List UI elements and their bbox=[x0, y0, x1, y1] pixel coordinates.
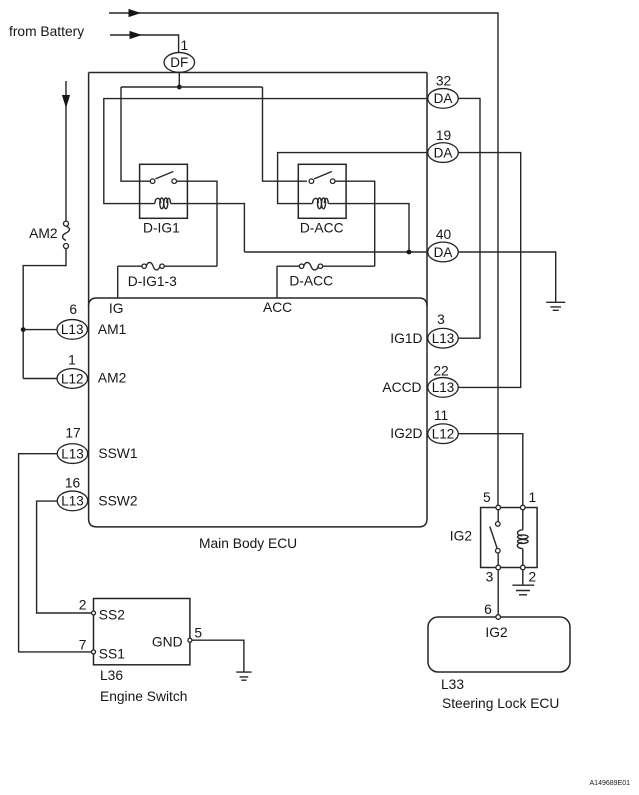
wire to AM1 connector bbox=[23, 329, 57, 331]
svg-text:2: 2 bbox=[79, 598, 87, 613]
wire IG2 pin 3 to steering lock ECU pin 6 bbox=[497, 570, 499, 615]
wire fuse D-IG1-3 to IG pin bbox=[117, 266, 119, 298]
pin GND contact bbox=[188, 638, 192, 642]
relay D-ACC switch blade bbox=[314, 172, 332, 179]
svg-text:6: 6 bbox=[484, 602, 492, 617]
connector DA 19 bbox=[428, 143, 459, 163]
node junction on DA40 line bbox=[407, 250, 412, 255]
svg-text:5: 5 bbox=[194, 626, 202, 641]
svg-text:DA: DA bbox=[434, 245, 453, 260]
Engine Switch box bbox=[94, 599, 190, 665]
svg-text:AM2: AM2 bbox=[98, 371, 126, 386]
wire D-IG1 coil out to DA40 line bbox=[171, 204, 245, 252]
relay D-IG1 box bbox=[140, 164, 188, 218]
svg-text:L12: L12 bbox=[61, 371, 84, 386]
svg-text:L13: L13 bbox=[432, 331, 455, 346]
connector L13 AM1 bbox=[57, 320, 88, 340]
svg-text:L33: L33 bbox=[441, 677, 464, 692]
fuse D-ACC bbox=[277, 265, 300, 267]
svg-text:3: 3 bbox=[437, 312, 445, 327]
svg-text:32: 32 bbox=[436, 73, 451, 88]
relay IG2 pin contacts bbox=[496, 505, 501, 510]
svg-text:1: 1 bbox=[528, 490, 536, 505]
ground of DA40 bbox=[546, 302, 565, 310]
svg-text:16: 16 bbox=[65, 475, 81, 490]
svg-text:L13: L13 bbox=[61, 446, 84, 461]
connector DF bbox=[164, 53, 195, 73]
wire DA40 line bbox=[244, 251, 428, 253]
connector DA 40 bbox=[428, 242, 459, 262]
svg-text:7: 7 bbox=[79, 637, 87, 652]
svg-text:GND: GND bbox=[152, 634, 183, 649]
arrow on AM2 feed bbox=[62, 95, 70, 108]
svg-text:5: 5 bbox=[483, 490, 491, 505]
wire fuse D-ACC to ACC pin bbox=[276, 266, 278, 298]
svg-text:SSW1: SSW1 bbox=[98, 446, 137, 461]
wire battery feed 2 to DF bbox=[110, 35, 179, 53]
wire AM2 fuse feed bbox=[65, 81, 67, 221]
wire DA32 to IG1D bbox=[458, 98, 480, 338]
wire bus left drop to D-IG1 switch bbox=[121, 87, 150, 181]
svg-text:ACC: ACC bbox=[263, 300, 292, 315]
ground of engine switch bbox=[236, 672, 251, 680]
svg-text:Main Body ECU: Main Body ECU bbox=[199, 536, 297, 551]
svg-text:22: 22 bbox=[433, 363, 448, 378]
connector DA 32 bbox=[428, 89, 459, 109]
connector L13 IG1D bbox=[428, 328, 459, 348]
svg-text:1: 1 bbox=[181, 38, 189, 53]
svg-text:DF: DF bbox=[170, 55, 188, 70]
svg-text:3: 3 bbox=[486, 569, 494, 584]
wire GND to ground bbox=[192, 640, 244, 672]
wire battery feed top line to IG2 pin 5 bbox=[109, 13, 498, 505]
svg-text:AM1: AM1 bbox=[98, 322, 126, 337]
svg-text:from Battery: from Battery bbox=[9, 24, 84, 39]
connector L13 SSW2 bbox=[57, 491, 88, 511]
fuse D-IG1-3 bbox=[118, 265, 143, 267]
relay D-IG1 coil bbox=[155, 198, 161, 203]
wire DF to junction bbox=[178, 72, 180, 87]
svg-text:SS1: SS1 bbox=[99, 647, 125, 662]
wire SSW1 to SS1 bbox=[19, 454, 92, 652]
svg-text:17: 17 bbox=[65, 426, 80, 441]
relay D-ACC switch contacts bbox=[309, 179, 314, 184]
relay D-IG1 switch contacts bbox=[150, 179, 155, 184]
svg-text:DA: DA bbox=[434, 145, 453, 160]
svg-text:19: 19 bbox=[436, 128, 452, 143]
svg-text:L12: L12 bbox=[432, 427, 455, 442]
svg-text:Engine Switch: Engine Switch bbox=[100, 689, 187, 704]
svg-text:L13: L13 bbox=[61, 494, 84, 509]
wire AM2 fuse to left column bbox=[23, 249, 66, 379]
arrow on second battery line bbox=[130, 31, 143, 39]
Main Body ECU inner top edge bbox=[89, 298, 427, 306]
svg-text:A149689E01: A149689E01 bbox=[590, 780, 631, 787]
pin SS1 contact bbox=[92, 650, 96, 654]
wire DA40 to ground bbox=[458, 252, 556, 302]
wire bus right drop to D-ACC switch bbox=[263, 87, 307, 181]
wire D-ACC switch out bbox=[335, 181, 375, 266]
node junction below DF bbox=[177, 85, 182, 90]
relay D-ACC coil bbox=[313, 198, 319, 203]
connector L12 AM2 bbox=[57, 369, 88, 389]
connector L13 ACCD bbox=[428, 378, 459, 398]
wire D-ACC coil out to DA40 line bbox=[328, 204, 409, 252]
wire IG2D to IG2 relay pin 1 bbox=[458, 434, 523, 506]
svg-text:D-IG1-3: D-IG1-3 bbox=[128, 274, 177, 289]
relay IG2 switch bbox=[497, 510, 499, 522]
ground of IG2 relay bbox=[512, 585, 534, 595]
pin 6 contact bbox=[496, 615, 501, 620]
wire DA32 feed line bbox=[104, 99, 428, 204]
Main Body ECU outer border bbox=[89, 72, 427, 74]
wire SSW2 to SS2 bbox=[37, 501, 92, 613]
svg-text:11: 11 bbox=[434, 408, 448, 423]
arrow on top battery line bbox=[129, 9, 142, 17]
svg-text:D-ACC: D-ACC bbox=[289, 274, 333, 289]
svg-text:IG2D: IG2D bbox=[390, 426, 422, 441]
svg-text:IG2: IG2 bbox=[450, 528, 472, 543]
relay D-ACC box bbox=[298, 164, 346, 218]
svg-text:L13: L13 bbox=[61, 322, 84, 337]
wire D-IG1 switch out bbox=[177, 181, 218, 266]
svg-text:AM2: AM2 bbox=[29, 226, 57, 241]
wire IG2 pin 2 to ground bbox=[522, 570, 524, 585]
svg-text:D-IG1: D-IG1 bbox=[143, 220, 180, 235]
svg-text:L13: L13 bbox=[432, 380, 455, 395]
svg-text:IG1D: IG1D bbox=[390, 331, 422, 346]
node junction on left column bbox=[21, 327, 26, 332]
svg-text:40: 40 bbox=[436, 227, 452, 242]
svg-text:D-ACC: D-ACC bbox=[300, 220, 344, 235]
pin SS2 contact bbox=[92, 611, 96, 615]
fuse AM2 bbox=[64, 221, 69, 226]
wire bus from DF junction bbox=[121, 86, 263, 88]
svg-text:DA: DA bbox=[434, 91, 453, 106]
svg-text:ACCD: ACCD bbox=[382, 380, 421, 395]
wire DA19 to ACCD bbox=[458, 153, 521, 388]
connector L12 IG2D bbox=[428, 424, 459, 444]
svg-text:SSW2: SSW2 bbox=[98, 494, 137, 509]
connector L13 SSW1 bbox=[57, 444, 88, 464]
svg-text:1: 1 bbox=[68, 353, 76, 368]
svg-text:Steering Lock ECU: Steering Lock ECU bbox=[442, 696, 559, 711]
relay D-IG1 switch blade bbox=[155, 172, 173, 179]
wire to AM2 connector bbox=[23, 378, 57, 380]
svg-text:L36: L36 bbox=[100, 668, 123, 683]
Steering Lock ECU box bbox=[428, 617, 570, 672]
svg-text:SS2: SS2 bbox=[99, 607, 125, 622]
relay IG2 box bbox=[481, 508, 537, 568]
svg-text:IG2: IG2 bbox=[485, 625, 507, 640]
relay IG2 coil bbox=[522, 510, 524, 530]
wire DA19 feed to D-ACC coil bbox=[278, 153, 428, 204]
svg-text:2: 2 bbox=[528, 569, 536, 584]
svg-text:6: 6 bbox=[69, 302, 77, 317]
svg-text:IG: IG bbox=[109, 301, 124, 316]
